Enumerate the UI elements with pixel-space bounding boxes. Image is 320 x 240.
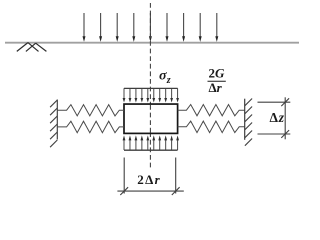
left wall hatches (50, 100, 57, 147)
dz dimension extension lines (258, 102, 291, 134)
surface load arrow q2 (99, 13, 102, 42)
left lower spring (57, 121, 124, 133)
2dr dimension line (117, 190, 183, 192)
top stress arrows sigma_z on box (123, 88, 179, 102)
bottom stress arrows on box (123, 135, 179, 150)
soil element box (124, 104, 178, 133)
2dr dimension ticks (120, 187, 179, 195)
surface load arrow q4 (132, 13, 135, 42)
svg-text:2Δr: 2Δr (137, 172, 161, 187)
svg-text:z: z (166, 75, 171, 86)
dz dimension ticks (281, 98, 289, 138)
surface load arrow q3 (116, 13, 119, 42)
ground surface line (5, 42, 299, 44)
top stress comb line (124, 87, 178, 89)
surface load arrow q1 (83, 13, 86, 42)
label sigma_z (159, 69, 171, 87)
centerline inside box (149, 105, 151, 133)
svg-text:σ: σ (159, 69, 167, 84)
surface load arrow q6 (166, 13, 169, 42)
label 2G over Delta-r (208, 65, 226, 95)
2dr dimension extension lines (124, 158, 176, 194)
left upper spring 2G/dr (57, 105, 124, 116)
label Delta-z (270, 110, 285, 125)
left wall line (56, 100, 58, 140)
right wall hatches (245, 99, 252, 146)
svg-text:Δz: Δz (270, 110, 285, 125)
surface load arrow q8 (199, 13, 202, 42)
svg-text:2G: 2G (209, 65, 226, 80)
right lower spring (178, 121, 245, 133)
label 2 Delta-r (137, 172, 161, 187)
dz dimension line (284, 97, 286, 139)
surface load arrow q5 (149, 13, 152, 42)
svg-text:Δr: Δr (209, 80, 223, 95)
bottom stress comb line (124, 149, 178, 151)
vertical dashed centerline (149, 3, 151, 169)
surface load arrow q9 (215, 13, 218, 42)
right upper spring (178, 105, 245, 116)
surface load arrow q7 (182, 13, 185, 42)
right wall line (244, 99, 246, 140)
ground surface hatch symbol (17, 43, 47, 52)
